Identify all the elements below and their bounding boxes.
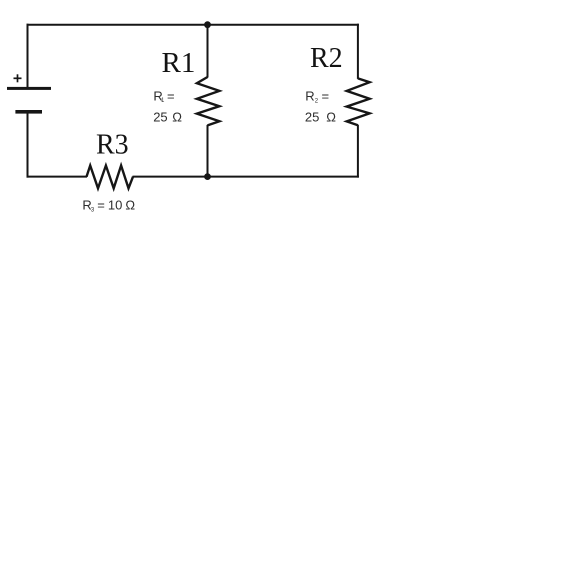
node A junction dot (top, R1 top): [204, 21, 211, 28]
battery B1 plus sign: [14, 74, 22, 82]
battery B1 negative plate (short): [15, 110, 42, 114]
node B junction dot (bottom, R1 bottom): [204, 173, 211, 180]
svg-text:R1: R1: [162, 47, 196, 79]
wire: R2 bottom lead vertical down to bottom-right corner: [357, 125, 359, 178]
resistor R2 zigzag body: [347, 78, 370, 125]
wire: top horizontal from battery + to R2 top: [27, 24, 359, 26]
wire: bottom horizontal from battery branch to R3 left lead: [27, 176, 88, 178]
wire: R1 bottom lead vertical: [207, 125, 209, 177]
svg-text:R3: R3: [96, 129, 129, 160]
svg-text:R2: R2: [310, 43, 343, 74]
resistor R1 zigzag body: [197, 77, 220, 125]
battery B1 positive plate (long): [7, 87, 51, 90]
wire: left vertical from top wire down to battery top plate: [27, 24, 29, 88]
wire: R1 top lead vertical: [207, 25, 209, 78]
wire: bottom horizontal from R3 right lead to bottom-right corner: [133, 176, 359, 178]
svg-text:R3=10Ω: R3=10Ω: [82, 198, 135, 214]
resistor R3 zigzag body: [87, 166, 134, 189]
wire: R2 top lead vertical: [357, 24, 359, 79]
wire: left vertical from battery negative plate down to bottom wire: [27, 114, 29, 178]
